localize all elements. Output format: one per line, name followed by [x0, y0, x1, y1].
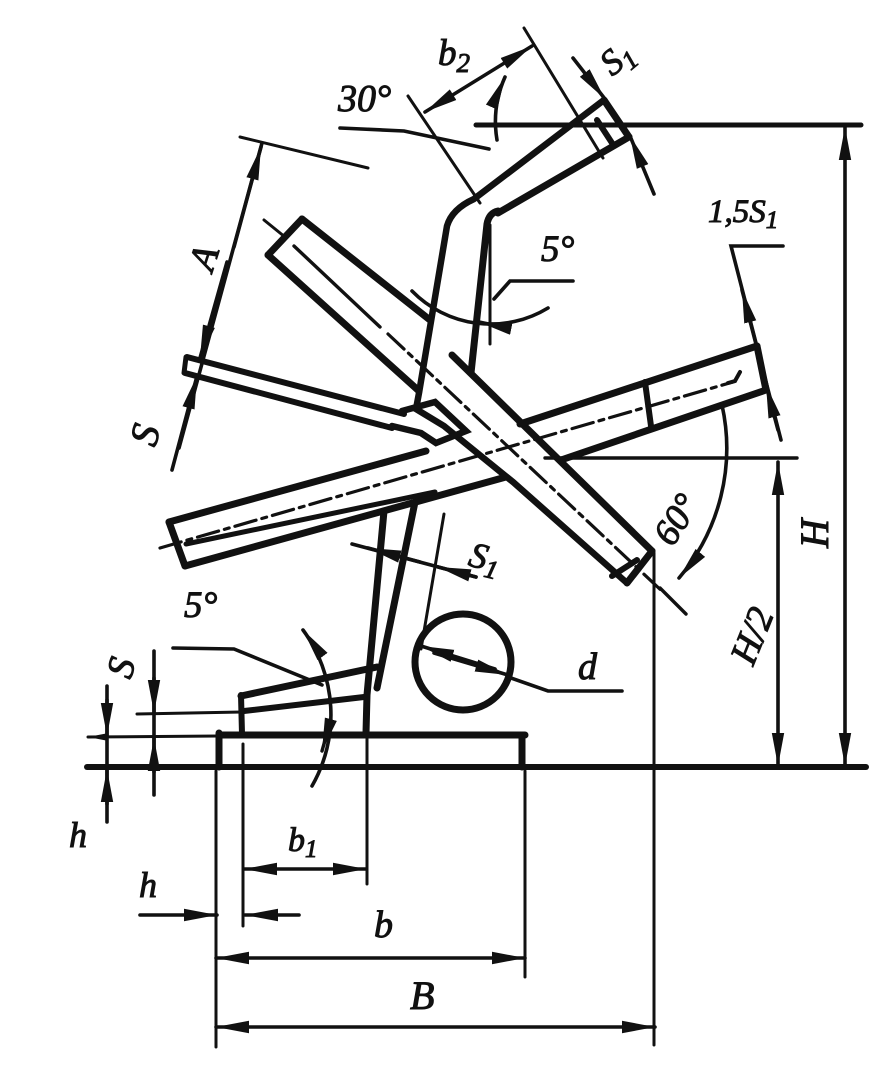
30 deg leader — [340, 128, 489, 149]
A top extension line — [240, 137, 368, 168]
svg-text:b: b — [374, 904, 393, 946]
circle diameter arrows — [421, 646, 495, 669]
top S1 arrow lower — [630, 136, 654, 194]
lower-right arm tip cap — [627, 551, 652, 583]
vertical ref line at bend — [489, 225, 492, 344]
H/2 level line — [545, 456, 797, 459]
small left arrow on base-top extension — [88, 734, 106, 741]
base top extension to left — [88, 736, 219, 737]
svg-text:h: h — [69, 815, 87, 855]
lower-right arm inner cap — [612, 560, 637, 576]
svg-text:B: B — [410, 973, 434, 1018]
svg-text:1,5S1: 1,5S1 — [708, 194, 778, 234]
b1 extension line right — [366, 668, 369, 884]
lower 5 deg leader — [173, 648, 322, 685]
svg-text:h: h — [139, 865, 157, 905]
S1 mid arrows — [368, 548, 420, 562]
svg-text:H/2: H/2 — [722, 602, 783, 672]
svg-text:S1: S1 — [592, 33, 645, 87]
steep arm centerline tail — [660, 588, 686, 614]
leader to d — [508, 677, 622, 691]
shallow arm upper-left edge — [169, 451, 426, 522]
shallow arm upper-right edge — [520, 346, 757, 424]
shallow arm centerline — [160, 382, 733, 548]
shallow arm right tip cap — [757, 346, 766, 390]
b dimension line — [216, 956, 525, 960]
h bottom right arrow — [245, 913, 299, 917]
chevron end of thin arm — [392, 402, 466, 443]
b2 extension line left — [408, 96, 480, 203]
S1 mid dimension line — [352, 544, 476, 577]
svg-text:S: S — [121, 419, 170, 450]
h extension line — [242, 744, 245, 926]
A dimension line — [179, 143, 262, 448]
top reference line H — [476, 123, 861, 128]
shallow arm lower-right edge — [561, 390, 766, 460]
foot left cap — [241, 695, 242, 734]
lower 5 deg arc — [303, 630, 331, 786]
B dimension line — [216, 1025, 655, 1029]
top S1 arrow upper — [573, 58, 605, 99]
svg-text:5°: 5° — [184, 585, 218, 626]
upper 5 deg arc arrow — [479, 322, 508, 328]
thin middle arm lower line — [185, 373, 392, 428]
shallow arm left seam — [186, 492, 435, 544]
upper-left arm upper edge E1 — [302, 219, 430, 320]
steep arm centerline stub — [264, 220, 285, 237]
circle d — [415, 614, 511, 710]
base plate right edge — [519, 735, 526, 767]
left h vertical line — [105, 686, 109, 822]
h bottom dimension line with inward arrows — [140, 913, 217, 917]
left S arrows — [152, 678, 156, 713]
svg-text:b1: b1 — [288, 822, 318, 863]
A arrow top — [234, 147, 261, 247]
foot top edge F1 — [241, 667, 377, 696]
shallow arm mid transverse line — [645, 382, 651, 426]
foot seam extension to left — [137, 712, 242, 714]
1,5S1 arrow 1 — [742, 290, 757, 348]
upper 5 deg leader — [494, 281, 573, 299]
web right edge, steep arm upper-right edge — [471, 211, 498, 373]
lower web right edge V2 — [377, 502, 415, 688]
shallow arm left tip cap — [169, 522, 185, 566]
thin middle arm tip cap — [184, 357, 186, 373]
S1 extension line L5 — [421, 514, 444, 649]
H/2 dimension line — [776, 462, 780, 766]
lower web left edge V1 — [366, 511, 384, 733]
foot seam line F2 — [244, 697, 364, 711]
svg-text:5°: 5° — [541, 229, 575, 270]
svg-text:b2: b2 — [438, 33, 470, 78]
left S vertical line — [152, 651, 156, 795]
1,5S1 arrow 2 — [766, 385, 778, 430]
steep arm upper-right edge — [452, 355, 652, 551]
shallow arm centerline end hook — [728, 372, 740, 383]
B extension line right — [653, 553, 656, 1045]
svg-text:S: S — [99, 653, 144, 682]
svg-text:60°: 60° — [646, 487, 708, 553]
shallow arm lower-left edge — [185, 477, 506, 566]
web left edge and top arm upper edge — [416, 100, 627, 583]
svg-text:H: H — [792, 517, 837, 549]
upper-left arm tip cap — [268, 219, 302, 255]
left h arrows — [105, 700, 109, 736]
top arm lower edge — [498, 137, 629, 213]
b extension line right — [524, 771, 527, 977]
svg-text:A: A — [180, 240, 228, 279]
B extension line left — [215, 771, 218, 1047]
thin middle arm upper line — [187, 357, 404, 414]
b2 extension line right — [524, 28, 603, 158]
top arm inner tip line — [597, 120, 612, 143]
A arrow bottom / S upper arrow — [200, 262, 227, 358]
b1 dimension line — [244, 867, 366, 871]
b2 dimension line — [425, 46, 532, 112]
base plate left edge — [216, 733, 223, 767]
svg-text:d: d — [578, 646, 598, 688]
svg-text:S1: S1 — [464, 534, 505, 585]
30 deg arc — [495, 77, 505, 140]
upper 5 deg arc — [412, 291, 548, 324]
H dimension line — [843, 127, 847, 766]
top arm tip cap — [604, 100, 629, 137]
steep arm centerline dashes — [388, 334, 664, 593]
ground line — [87, 764, 866, 770]
1,5S1 leader — [731, 246, 783, 440]
60 degree arc — [679, 405, 727, 578]
steep arm lower-left boundary L3 — [268, 255, 419, 391]
lower 5 deg arc arrow — [322, 726, 329, 751]
svg-text:30°: 30° — [337, 78, 391, 120]
upper-left arm centerline solid part — [294, 246, 380, 327]
base plate top edge — [219, 732, 525, 739]
S lower arrow — [172, 376, 197, 470]
